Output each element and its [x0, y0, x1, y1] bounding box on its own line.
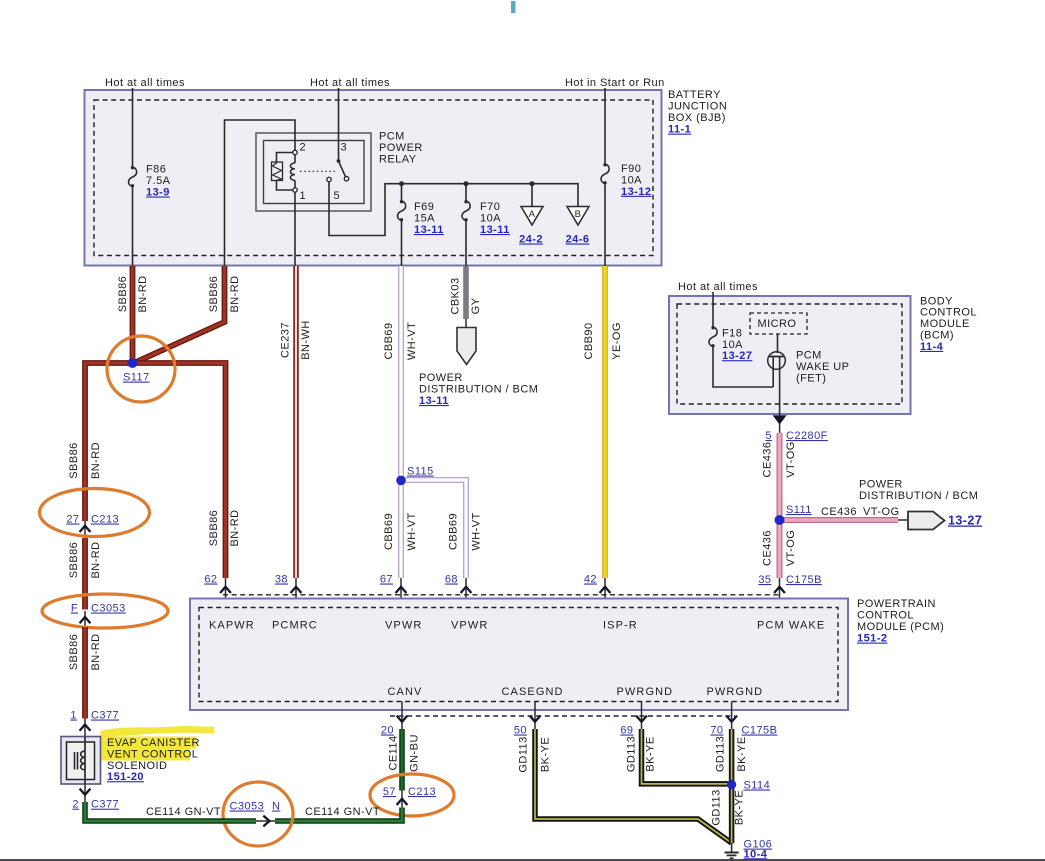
- pin 69 arrow out of PCM: [641, 702, 643, 730]
- svg-text:BN-RD: BN-RD: [229, 275, 241, 312]
- wire hot feed to F18: [712, 292, 714, 327]
- svg-text:PCM WAKE: PCM WAKE: [757, 620, 825, 632]
- svg-text:24-2: 24-2: [519, 234, 543, 246]
- in-line connector 57 C213: [401, 791, 403, 808]
- svg-text:13-11: 13-11: [414, 224, 444, 236]
- svg-text:69: 69: [620, 725, 633, 737]
- svg-text:15A: 15A: [414, 213, 435, 225]
- svg-text:DISTRIBUTION / BCM: DISTRIBUTION / BCM: [859, 490, 978, 502]
- wire relay pin 1 to BJB edge: [294, 192, 296, 266]
- svg-text:F18: F18: [722, 327, 742, 339]
- highlight ellipse around 57 C213: [370, 774, 454, 816]
- svg-text:C377: C377: [91, 710, 119, 722]
- splice S111: [775, 515, 785, 525]
- svg-text:BODY: BODY: [920, 295, 953, 307]
- wire GD113 BK-YE pin 69 to S114: [642, 729, 732, 784]
- fuse F70 10A: [462, 201, 470, 221]
- yellow highlight bars: [101, 737, 197, 749]
- pin 50 arrow out of PCM: [534, 702, 536, 730]
- svg-text:POWER: POWER: [859, 479, 903, 491]
- fuse F69 15A: [398, 201, 406, 221]
- svg-text:10A: 10A: [480, 213, 501, 225]
- relay pin 3 contact: [337, 159, 341, 163]
- svg-text:PWRGND: PWRGND: [707, 686, 764, 698]
- svg-text:27: 27: [66, 514, 79, 526]
- svg-text:JUNCTION: JUNCTION: [668, 100, 727, 112]
- EVAP canister vent control solenoid box: [61, 737, 101, 785]
- svg-text:1: 1: [300, 190, 307, 202]
- svg-text:2: 2: [300, 142, 307, 154]
- in-box connector B (to 24-6): [567, 207, 589, 226]
- svg-text:10-4: 10-4: [744, 848, 768, 860]
- svg-text:ISP-R: ISP-R: [603, 620, 638, 632]
- PCM wake up FET symbol: [768, 352, 786, 370]
- wire CE237 BN-WH relay pin1 to pin 38: [293, 266, 299, 578]
- svg-text:BN-WH: BN-WH: [300, 320, 312, 360]
- svg-text:VT-OG: VT-OG: [785, 441, 797, 477]
- svg-text:C175B: C175B: [786, 574, 822, 586]
- svg-text:7.5A: 7.5A: [146, 175, 171, 187]
- svg-text:MICRO: MICRO: [758, 318, 797, 330]
- svg-text:POWER: POWER: [419, 372, 463, 384]
- svg-text:F: F: [71, 603, 78, 615]
- wire SBB86 BN-RD from F86 to S117: [130, 266, 136, 363]
- svg-text:C175B: C175B: [742, 725, 778, 737]
- svg-text:VENT CONTROL: VENT CONTROL: [107, 748, 198, 760]
- wire CE114 GN-VT C3053 to solenoid: [85, 802, 256, 821]
- svg-text:VPWR: VPWR: [385, 620, 422, 632]
- relay coil: [294, 155, 296, 164]
- svg-text:13-12: 13-12: [621, 186, 651, 198]
- wire CE436 VT-OG C2280F to C175B: [777, 433, 783, 578]
- wire F18 to FET: [713, 347, 773, 388]
- svg-text:GD113: GD113: [711, 789, 723, 825]
- svg-text:Hot at all times: Hot at all times: [678, 281, 758, 293]
- wire F69 to BJB edge: [401, 221, 403, 267]
- fuse F18 10A: [709, 327, 717, 347]
- svg-text:57: 57: [383, 786, 396, 798]
- teal cursor bar top center: [511, 1, 516, 13]
- svg-text:(BCM): (BCM): [920, 330, 954, 342]
- svg-text:C3053: C3053: [91, 603, 126, 615]
- svg-text:10A: 10A: [722, 339, 743, 351]
- svg-text:CONTROL: CONTROL: [857, 609, 914, 621]
- svg-text:SOLENOID: SOLENOID: [107, 760, 167, 772]
- wire SBB86 BN-RD C213 to C3053: [82, 538, 88, 610]
- svg-text:13-27: 13-27: [948, 514, 982, 528]
- yellow highlight swoosh: [100, 726, 215, 738]
- wire hot feed to relay pin 3: [338, 88, 340, 160]
- svg-text:Hot at all times: Hot at all times: [105, 77, 185, 89]
- svg-text:F86: F86: [146, 164, 166, 176]
- svg-text:PCM: PCM: [796, 350, 822, 362]
- relay coil parallel wiring: [277, 153, 296, 163]
- connector pentagon CBK03 to power distribution: [465, 319, 467, 328]
- splice S114: [727, 780, 736, 789]
- svg-text:POWER: POWER: [379, 142, 423, 154]
- svg-text:CE237: CE237: [280, 322, 292, 358]
- svg-text:VPWR: VPWR: [451, 620, 488, 632]
- svg-text:CE114 GN-VT: CE114 GN-VT: [305, 806, 380, 818]
- svg-text:N: N: [272, 801, 280, 813]
- in-line connector F C3053: [84, 611, 86, 627]
- relay pin 2 terminal: [293, 150, 297, 154]
- svg-text:BK-YE: BK-YE: [540, 737, 552, 772]
- powertrain control module (PCM) outline: [190, 599, 848, 711]
- svg-text:DISTRIBUTION / BCM: DISTRIBUTION / BCM: [419, 383, 538, 395]
- wire SBB86 BN-RD S117 arms: [85, 363, 226, 578]
- svg-text:C213: C213: [91, 514, 119, 526]
- svg-text:CE114 GN-VT: CE114 GN-VT: [146, 806, 221, 818]
- svg-text:2: 2: [72, 799, 79, 811]
- svg-text:VT-OG: VT-OG: [863, 506, 899, 518]
- in-line connector 27 C213: [84, 521, 86, 538]
- svg-text:KAPWR: KAPWR: [209, 620, 255, 632]
- svg-text:BOX (BJB): BOX (BJB): [668, 112, 726, 124]
- wire CBB90 YE-OG from F90 to pin 42: [602, 266, 608, 578]
- pin 70 arrow out of PCM: [731, 702, 733, 730]
- wire CE436 VT-OG branch S111 to BCM power distribution: [780, 517, 899, 523]
- arrow out of BCM to C2280F: [779, 414, 781, 433]
- wire SBB86 BN-RD from relay pin2 to S117: [135, 266, 225, 363]
- in-box connector A (to 24-2): [521, 207, 543, 226]
- svg-text:WAKE UP: WAKE UP: [796, 361, 849, 373]
- wire CBK03 GY stub: [463, 266, 469, 319]
- svg-text:SBB86: SBB86: [117, 276, 129, 313]
- svg-text:GY: GY: [470, 297, 482, 314]
- svg-text:11-4: 11-4: [920, 341, 944, 353]
- relay coil resistor: [272, 162, 283, 181]
- relay switch blade: [339, 161, 346, 176]
- in-line connector 1 C377: [84, 719, 86, 737]
- svg-text:YE-OG: YE-OG: [611, 322, 623, 360]
- svg-text:1: 1: [70, 710, 77, 722]
- highlight circle around C3053 N: [223, 782, 293, 846]
- svg-text:BK-YE: BK-YE: [734, 790, 746, 825]
- splice S117: [128, 358, 138, 368]
- MICRO box: [750, 313, 807, 334]
- svg-text:S114: S114: [744, 780, 771, 792]
- wire SBB86 BN-RD C3053 to C377: [82, 627, 88, 719]
- wire F90 to BJB edge: [604, 184, 606, 266]
- svg-text:SBB86: SBB86: [208, 276, 220, 313]
- svg-text:S111: S111: [786, 504, 812, 516]
- svg-text:WH-VT: WH-VT: [471, 512, 483, 550]
- svg-text:Hot in Start or Run: Hot in Start or Run: [565, 77, 665, 89]
- wire relay pin 5 output bus: [329, 182, 578, 236]
- wire CE114 GN-BU pin 20 to C213: [399, 729, 405, 791]
- svg-text:BK-YE: BK-YE: [645, 736, 657, 771]
- svg-text:13-9: 13-9: [146, 187, 170, 199]
- svg-text:CE114: CE114: [388, 735, 400, 770]
- wire MICRO to FET gate: [777, 334, 779, 353]
- PCM power relay box: [256, 133, 371, 211]
- svg-text:C2280F: C2280F: [786, 430, 828, 442]
- highlight ellipse around C3053: [42, 594, 168, 628]
- battery junction box (BJB) outline: [85, 90, 662, 266]
- svg-text:38: 38: [275, 574, 288, 586]
- body control module (BCM) outline: [669, 296, 911, 414]
- connector pentagon to 13-27: [898, 519, 908, 521]
- svg-text:BN-RD: BN-RD: [90, 633, 102, 670]
- svg-text:35: 35: [758, 574, 771, 586]
- svg-text:3: 3: [341, 142, 348, 154]
- svg-text:10A: 10A: [621, 174, 642, 186]
- svg-text:PWRGND: PWRGND: [617, 686, 674, 698]
- svg-text:CBB69: CBB69: [383, 322, 395, 359]
- wire CBB69 WH-VT from F69: [398, 266, 404, 578]
- highlight circle around S117: [107, 336, 175, 402]
- wire hot feed to F90: [604, 88, 606, 164]
- svg-text:C213: C213: [408, 786, 436, 798]
- svg-text:EVAP CANISTER: EVAP CANISTER: [107, 737, 200, 749]
- svg-text:BK-YE: BK-YE: [736, 736, 748, 771]
- relay pin 1 terminal: [293, 188, 297, 192]
- svg-text:151-20: 151-20: [107, 771, 144, 783]
- svg-text:SBB86: SBB86: [68, 542, 80, 579]
- PCM connector dashed line bottom: [390, 715, 735, 717]
- fuse F86 7.5A: [129, 167, 137, 187]
- svg-text:A: A: [529, 209, 536, 220]
- svg-text:PCM: PCM: [379, 131, 405, 143]
- svg-text:BN-RD: BN-RD: [137, 275, 149, 312]
- svg-text:WH-VT: WH-VT: [406, 322, 418, 360]
- svg-text:151-2: 151-2: [857, 633, 887, 645]
- svg-text:CBK03: CBK03: [450, 277, 462, 314]
- PCM connector dashed line top: [223, 594, 779, 596]
- bus junction dots: [399, 181, 404, 186]
- svg-text:Hot at all times: Hot at all times: [310, 77, 390, 89]
- in-line connector C3053 N: [256, 820, 275, 822]
- svg-text:B: B: [575, 209, 582, 220]
- svg-text:C377: C377: [91, 799, 119, 811]
- svg-text:WH-VT: WH-VT: [406, 512, 418, 550]
- svg-text:BN-RD: BN-RD: [90, 442, 102, 479]
- wire relay pin 2 to BJB edge: [225, 120, 296, 266]
- svg-text:CBB90: CBB90: [583, 322, 595, 359]
- splice S115: [396, 476, 406, 486]
- pin 20 arrow out of PCM: [401, 702, 403, 730]
- svg-text:5: 5: [765, 430, 772, 442]
- svg-text:SBB86: SBB86: [68, 634, 80, 671]
- svg-text:CANV: CANV: [388, 686, 423, 698]
- wire bus to connector A: [531, 184, 533, 207]
- solenoid internal wire: [84, 737, 86, 785]
- wire hot feed to F86: [132, 88, 134, 167]
- svg-text:MODULE (PCM): MODULE (PCM): [857, 621, 944, 633]
- wire CBB69 WH-VT branch S115 to pin 68: [401, 480, 466, 578]
- svg-text:11-1: 11-1: [668, 124, 691, 136]
- fuse F90 10A: [601, 164, 609, 184]
- svg-text:70: 70: [710, 725, 723, 737]
- in-line connector 2 C377: [84, 784, 86, 802]
- svg-text:67: 67: [380, 574, 393, 586]
- svg-text:50: 50: [514, 725, 527, 737]
- svg-text:5: 5: [334, 190, 341, 202]
- svg-text:BN-RD: BN-RD: [90, 541, 102, 578]
- svg-text:20: 20: [381, 725, 394, 737]
- svg-text:POWERTRAIN: POWERTRAIN: [857, 598, 936, 610]
- svg-text:F70: F70: [480, 201, 500, 213]
- wire F70 to BJB edge: [465, 221, 467, 267]
- wire CE114 GN-VT C213 to C3053: [275, 808, 402, 822]
- highlight ellipse around C213: [40, 489, 150, 537]
- svg-text:GD113: GD113: [626, 736, 638, 772]
- svg-text:VT-OG: VT-OG: [785, 530, 797, 566]
- svg-text:PCMRC: PCMRC: [272, 620, 318, 632]
- wire GD113 BK-YE pin 50 to ground run: [535, 729, 732, 843]
- svg-text:68: 68: [445, 574, 458, 586]
- svg-text:C3053: C3053: [230, 801, 265, 813]
- wire GD113 BK-YE pin 70 to G106: [729, 729, 735, 843]
- relay armature dotted link: [300, 170, 335, 172]
- ground G106: [731, 843, 733, 852]
- svg-text:62: 62: [204, 574, 217, 586]
- svg-text:CE436: CE436: [762, 530, 774, 566]
- svg-text:CONTROL: CONTROL: [920, 307, 977, 319]
- svg-text:CBB69: CBB69: [448, 513, 460, 550]
- svg-text:BATTERY: BATTERY: [668, 89, 721, 101]
- svg-text:13-11: 13-11: [419, 395, 449, 407]
- bottom frame line: [0, 859, 1045, 861]
- relay pin 5 terminal: [327, 177, 331, 181]
- svg-text:RELAY: RELAY: [379, 153, 417, 165]
- pin 62 arrow into PCM: [225, 578, 227, 608]
- svg-text:CE436: CE436: [821, 506, 857, 518]
- svg-text:GN-BU: GN-BU: [409, 734, 421, 772]
- wire F86 to BJB edge: [132, 187, 134, 267]
- wire bus to F69: [401, 184, 403, 201]
- svg-text:S115: S115: [407, 466, 434, 478]
- svg-text:GD113: GD113: [518, 736, 530, 772]
- svg-text:GD113: GD113: [715, 736, 727, 772]
- svg-text:MODULE: MODULE: [920, 318, 970, 330]
- svg-text:F69: F69: [414, 201, 434, 213]
- svg-text:BN-RD: BN-RD: [229, 509, 241, 546]
- svg-text:SBB86: SBB86: [208, 510, 220, 547]
- wire bus to F70: [465, 184, 467, 201]
- svg-text:CBB69: CBB69: [383, 513, 395, 550]
- svg-text:S117: S117: [123, 372, 150, 384]
- svg-text:13-11: 13-11: [480, 224, 510, 236]
- svg-text:SBB86: SBB86: [68, 442, 80, 479]
- svg-text:CASEGND: CASEGND: [502, 686, 564, 698]
- svg-text:F90: F90: [621, 163, 641, 175]
- svg-text:24-6: 24-6: [566, 234, 590, 246]
- svg-text:42: 42: [584, 574, 597, 586]
- svg-text:(FET): (FET): [796, 372, 826, 384]
- svg-text:CE436: CE436: [762, 442, 774, 478]
- solenoid coil: [74, 752, 76, 770]
- svg-text:13-27: 13-27: [722, 350, 752, 362]
